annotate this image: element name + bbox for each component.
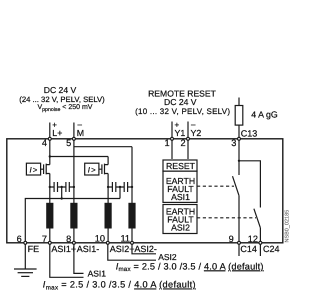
svg-text:ASI1: ASI1 [171,192,190,202]
svg-text:ASI2: ASI2 [171,222,190,232]
terminal 4 [48,137,51,140]
wire ch1 source down [49,174,51,204]
block EARTH FAULT ASI2 [163,205,197,234]
svg-text:(24 ... 32 V, PELV, SELV): (24 ... 32 V, PELV, SELV) [19,95,105,104]
svg-text:DC 24 V: DC 24 V [44,85,77,95]
wire FE net [25,199,120,242]
wire contact 1 to terminal 9 [238,195,240,241]
svg-text:(10 ... 32 V, PELV, SELV): (10 ... 32 V, PELV, SELV) [135,107,230,116]
contact K2 (earth fault ASI2, NO) [254,209,260,228]
svg-text:L+: L+ [52,128,62,138]
wire actuation link ASI1 (dashed) [197,185,234,187]
svg-text:Y1: Y1 [175,128,186,138]
svg-text:ASI1: ASI1 [88,268,107,278]
svg-text:8: 8 [66,234,71,244]
wire ASI2- vertical [131,147,133,203]
inductor L3 (ASI2+ choke) [105,203,112,229]
svg-text:C14: C14 [240,244,257,254]
wire ASI1+ leader [50,244,84,277]
wire branch to contact 2 [239,161,260,208]
svg-text:C13: C13 [241,128,258,138]
transistor Q2 (electronic switch ch2) [85,163,108,175]
wire ASI2+ leader [108,244,156,260]
terminal 3 [238,137,241,140]
svg-text:Vppnoise < 250 mV: Vppnoise < 250 mV [38,104,93,113]
terminal 2 [187,137,190,140]
terminal 10 [106,241,109,244]
node ch1 cap mid [61,186,63,188]
wire ASI2- leader [132,244,156,253]
svg-text:FE: FE [28,244,40,254]
terminal 9 [238,241,241,244]
terminal 8 [72,241,75,244]
wire M external stub [73,123,75,138]
svg-text:C24: C24 [263,244,280,254]
svg-text:NSB0_02185: NSB0_02185 [285,210,291,243]
wire choke outputs [50,229,132,242]
wire ch2 vertical [107,157,109,204]
svg-text:10: 10 [95,233,105,243]
svg-text:ASI2+: ASI2+ [110,244,135,254]
node ch2 cap right [131,186,133,188]
terminal 5 [72,137,75,140]
svg-text:DC 24 V: DC 24 V [164,97,197,107]
wire Y1 external stub [171,122,173,138]
inductor L2 (ASI1- choke) [70,203,77,229]
wire M internal [73,141,75,204]
svg-text:7: 7 [42,234,47,244]
svg-text:5: 5 [66,138,71,148]
inductor L4 (ASI2- choke) [128,203,135,229]
svg-text:4: 4 [42,138,47,148]
svg-text:ASI1-: ASI1- [77,244,100,254]
terminal 12 [259,241,262,244]
node FE junction ch1 [61,197,63,199]
terminal 7 [48,241,51,244]
terminal 1 [171,137,174,140]
svg-text:Imax = 2.5 / 3.0 /3.5 / 4.0 A: Imax = 2.5 / 3.0 /3.5 / 4.0 A (default) [116,261,264,273]
node ch1 cap right [73,186,75,188]
node ch1 cap left [49,186,51,188]
svg-text:ASI1+: ASI1+ [51,244,76,254]
svg-text:1: 1 [164,138,169,148]
svg-text:>: > [33,165,38,174]
terminal 6 [24,241,27,244]
wire Y2 external stub [187,122,189,138]
svg-text:11: 11 [120,233,130,243]
node ch2 cap left [107,186,109,188]
ground (functional earth) [14,269,37,276]
svg-text:3: 3 [231,138,236,148]
contact K1 (earth fault ASI1, NO) [233,176,239,195]
node L+ branch junction [49,155,51,157]
wire L+ branch to channel 2 [50,156,108,158]
wire ch1 cap midpoint tap [61,187,63,199]
svg-text:12: 12 [248,234,258,244]
node ch2 cap mid [119,186,121,188]
svg-text:Y2: Y2 [191,128,202,138]
svg-text:4 A gG: 4 A gG [251,110,278,120]
wire ASI1- leader [74,244,84,273]
block EARTH FAULT ASI1 [163,171,197,202]
wire terminal 9 stub [238,244,240,256]
svg-text:M: M [77,128,84,138]
wire ch2 cap midpoint tap [119,187,121,199]
svg-text:Imax = 2.5 / 3.0 /3.5 / 4.0 A: Imax = 2.5 / 3.0 /3.5 / 4.0 A (default) [43,280,196,292]
svg-text:9: 9 [229,234,234,244]
svg-text:6: 6 [17,234,22,244]
capacitor C2a C2b (ch2 Y-caps) [108,182,132,192]
wire contact 2 to terminal 12 [259,228,261,242]
fuse F1 4 A gG [235,106,243,126]
wire actuation link ASI2 (dashed) [197,217,256,219]
wire L+ external stub [49,123,51,138]
wire terminal 12 stub [259,244,261,256]
terminal 11 [131,241,134,244]
svg-text:RESET: RESET [166,161,196,171]
capacitor C1a C1b (ch1 Y-caps) [50,182,74,192]
wire FE to ground [24,244,26,268]
inductor L1 (ASI1+ choke) [46,203,53,229]
wire Y2 internal [187,141,189,160]
svg-text:>: > [91,165,96,174]
wire L+ internal [49,141,51,165]
svg-text:2: 2 [180,138,185,148]
wire M branch to ASI2- [74,146,132,148]
wire contact feed [238,141,240,176]
wire fuse feed [238,98,240,138]
transistor Q1 (electronic switch ch1) [26,163,49,175]
wire Y1 internal [171,141,173,160]
block RESET [163,160,197,171]
node contact branch junction [238,160,240,162]
device outline box [7,139,283,243]
svg-text:ASI2-: ASI2- [134,244,157,254]
